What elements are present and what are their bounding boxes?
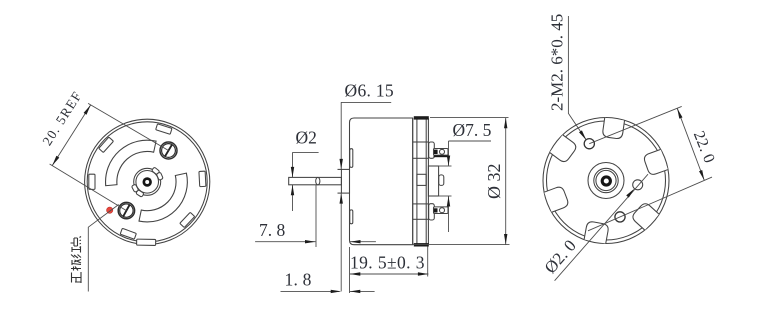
front face tab lower [350, 210, 353, 224]
red positive-terminal dot [107, 207, 113, 213]
hub bump 2 [156, 172, 163, 180]
dim Ø6.15 vertical line [340, 102, 342, 169]
glyph 红 [71, 247, 81, 258]
svg-text:Ø 32: Ø 32 [484, 164, 504, 200]
label 2-M2.6*0.45 (rotated) [548, 14, 567, 111]
svg-text:1. 8: 1. 8 [285, 270, 312, 290]
dim 19.5 line [350, 273, 429, 275]
rim tab left [89, 174, 95, 189]
rear boss middle circle [594, 168, 618, 192]
leader line from red dot to label [88, 205, 118, 292]
vent left [544, 186, 569, 213]
dim 22.0 extension line 2 [588, 177, 712, 231]
rear center boss [428, 166, 438, 196]
lower arc end edge left [139, 210, 142, 222]
lower vent arc slot [140, 174, 182, 216]
rear boss outer circle [588, 163, 624, 199]
boss edge extension bottom [439, 195, 452, 197]
center hub outer circle [134, 168, 161, 195]
vent top [602, 118, 624, 140]
arrowhead top of 20.5REF [84, 105, 91, 115]
dim Ø32 top extension [430, 117, 509, 119]
dim Ø7.5 vertical with arrows [448, 141, 450, 166]
svg-text:Ø6. 15: Ø6. 15 [345, 81, 394, 101]
endcap internal line upper-terminal top [413, 141, 429, 143]
svg-text:Ø2: Ø2 [296, 128, 317, 148]
terminal lower crimp mark [434, 208, 438, 212]
rim tab right [199, 171, 206, 187]
dim 7.8 left-pointing arrow at body face [350, 241, 376, 243]
upper arc end edge left [105, 185, 117, 186]
leader Ø2.0 line [555, 174, 648, 281]
rim tab bottom [137, 239, 156, 245]
M2.6 screw hole lower-right [615, 212, 625, 222]
dim Ø7.5 shelf [449, 140, 492, 142]
terminal lower base [429, 204, 435, 220]
rim tab top [156, 124, 172, 134]
rim tab upper-left [99, 137, 114, 152]
dim 22.0 text (rotated) [690, 129, 718, 166]
terminal upper tab [434, 149, 449, 156]
M2.6 screw hole upper-left [584, 139, 594, 149]
bushing edge tick top [338, 168, 342, 170]
endcap band line 1 [412, 118, 414, 245]
upper arc end edge right [154, 141, 157, 153]
terminal lower tab [434, 207, 449, 214]
terminal screw upper [160, 142, 177, 159]
arrowhead bottom of 20.5REF [52, 156, 59, 166]
bushing edge tick bottom [338, 192, 342, 194]
dim Ø2 upper arrow line [292, 152, 294, 177]
vent lower-right [631, 201, 659, 230]
endcap crimp top [414, 116, 429, 119]
terminal screw lower [118, 202, 134, 218]
dim 7.8 extension line at shaft mark [315, 185, 317, 247]
hub inner circle [136, 171, 159, 194]
dim 7.8 line with right arrow [255, 241, 315, 243]
boss edge extension top [439, 165, 452, 167]
Ø2.0 hole [633, 180, 643, 190]
endcap rear face [425, 118, 427, 245]
dimension 20.5REF dimension line [52, 105, 90, 166]
endcap band line 2 [416, 118, 418, 245]
rim tab lower-right [180, 212, 195, 227]
vent right [643, 149, 668, 176]
dimension text 20.5REF [39, 88, 85, 148]
lower arc end edge right [175, 173, 187, 176]
dim 1.8 line left part with right arrow [281, 290, 340, 292]
dim Ø6.15 shelf [341, 101, 391, 103]
front bearing bushing [341, 169, 349, 193]
dim 22.0 dimension line [677, 108, 704, 180]
hub bump 1 [152, 167, 160, 175]
motor front outer rim circle [85, 119, 210, 244]
label Ø2.0 (rotated) [541, 236, 580, 277]
label 正极红点 (positive red dot), drawn glyphs rotated [71, 237, 82, 284]
dim Ø2 lower arrow line [292, 185, 294, 211]
motor front inner rim circle [87, 122, 207, 242]
rear bearing recess [417, 174, 426, 185]
endcap internal line lower-terminal top [413, 203, 429, 205]
dim Ø6.15 lower arrow / 1.8 extension [340, 193, 342, 291]
dim 22.0 extension line 1 [589, 106, 681, 143]
motor body can [350, 118, 413, 245]
front face tab upper [350, 149, 353, 168]
rim tab lower-left [120, 228, 136, 239]
glyph 极 [71, 260, 81, 271]
svg-text:19. 5±0. 3: 19. 5±0. 3 [350, 253, 425, 273]
svg-text:Ø7. 5: Ø7. 5 [453, 120, 492, 140]
dim Ø32 text (rotated) [484, 164, 504, 200]
endcap crimp bottom [414, 243, 429, 246]
shaft ellipse mark [316, 177, 320, 184]
dim 1.8 right part with left arrow [350, 290, 375, 292]
rear shaft hole black ring [602, 177, 610, 185]
hub bump 3 [136, 190, 144, 198]
svg-text:2-M2. 6*0. 45: 2-M2. 6*0. 45 [548, 14, 567, 111]
back inner rim circle [547, 121, 666, 240]
terminal upper hole [440, 149, 445, 154]
dim 19.5 right extension [427, 247, 429, 277]
terminal upper base [429, 142, 435, 158]
vent upper-left [550, 135, 578, 164]
terminal lower hole [440, 208, 445, 213]
dim Ø32 dimension line [505, 118, 507, 245]
vent bottom [584, 221, 609, 244]
dim Ø2 shelf [293, 151, 319, 153]
endcap internal line upper-terminal bottom [413, 157, 429, 159]
shaft [289, 177, 342, 184]
svg-text:7. 8: 7. 8 [259, 220, 286, 240]
leader 2-M2.6 shelf [568, 16, 586, 140]
shaft cross-section black ring [143, 177, 152, 186]
upper vent arc slot [111, 146, 155, 185]
terminal upper bold edge [434, 155, 449, 157]
dim 19.5 left extension [349, 247, 351, 293]
endcap internal line lower-terminal bottom [413, 218, 429, 220]
endcap rear face outer line [427, 119, 429, 245]
hub bump 4 [131, 184, 138, 192]
dimension 20.5REF extension line from lower screw [50, 164, 127, 211]
rear boss inner circle [596, 170, 616, 190]
dim Ø32 bottom extension [413, 244, 510, 246]
terminal upper crimp mark [434, 150, 438, 154]
glyph 正 [72, 272, 82, 283]
glyph 点 [71, 237, 82, 248]
boss center nub [439, 175, 444, 186]
back outer rim circle [543, 118, 669, 244]
dimension 20.5REF extension line from upper screw [88, 103, 168, 150]
